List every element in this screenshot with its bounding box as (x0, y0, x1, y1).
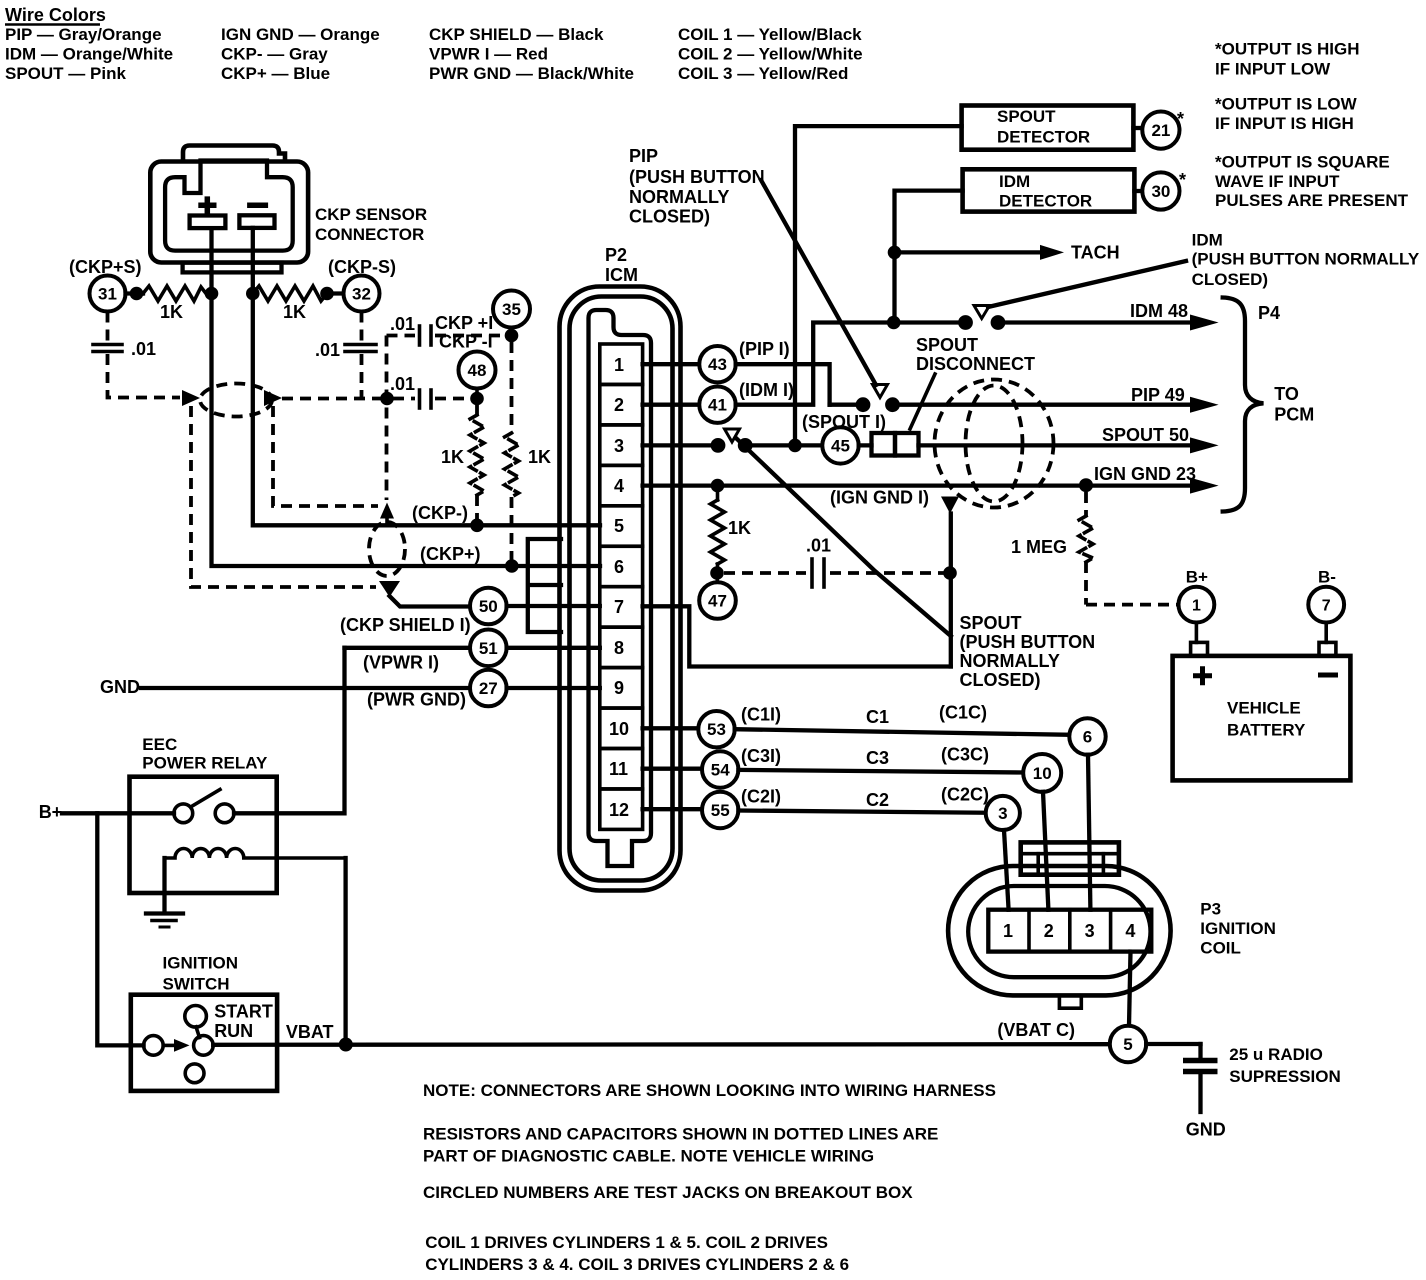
ICM pin 1 box (600, 344, 643, 384)
wire IDM 48 to PCM (998, 320, 1192, 324)
svg-text:47: 47 (708, 592, 727, 611)
svg-text:TACH: TACH (1071, 243, 1120, 263)
svg-text:(IDM I): (IDM I) (739, 380, 794, 400)
svg-text:12: 12 (609, 800, 629, 820)
node dot VBAT (339, 1038, 353, 1052)
ICM pin 11 box (600, 749, 643, 789)
wire dashed 31-cap to shield node (108, 354, 181, 398)
CKP sensor connector terminal + (190, 216, 226, 229)
wire SPOUT 50 to PCM (919, 443, 1193, 447)
wire pin 12 to jack 55 (643, 807, 702, 811)
capacitor .01 (CKP+I) (418, 326, 422, 345)
leader diagonal PIP pushbutton (761, 180, 876, 385)
node dot on CKP- wire at 1K (470, 519, 484, 533)
wire SPOUT detector to SPOUT line (795, 126, 962, 445)
leader diagonal IDM pushbutton (988, 261, 1186, 307)
CKP sensor connector cavity with keyway (165, 161, 293, 251)
pushbutton PIP open triangle (873, 385, 888, 398)
svg-text:(VBAT C): (VBAT C) (997, 1020, 1075, 1040)
svg-text:IF INPUT LOW: IF INPUT LOW (1215, 60, 1331, 79)
wire C3 jack 54 to jack 10 (738, 770, 1023, 773)
svg-text:41: 41 (708, 396, 727, 415)
capacitor .01 dashed (SPOUT branch) (724, 571, 806, 575)
test jack 47 (699, 582, 736, 619)
ignition switch arrow (163, 1044, 174, 1048)
svg-text:5: 5 (614, 516, 624, 536)
svg-text:IDM 48: IDM 48 (1130, 301, 1188, 321)
wire TACH (895, 250, 1042, 254)
svg-text:(C1C): (C1C) (939, 703, 987, 723)
ICM pin 3 box (600, 425, 643, 465)
svg-text:3: 3 (998, 804, 1007, 823)
wire pin 10 to jack 53 (643, 726, 699, 730)
cable shield oval (PCM lines) inner (966, 386, 1023, 502)
svg-text:10: 10 (1033, 764, 1052, 783)
svg-text:TO: TO (1274, 384, 1299, 404)
svg-text:P3: P3 (1200, 900, 1221, 919)
svg-text:C1: C1 (866, 707, 889, 727)
svg-text:21: 21 (1151, 121, 1170, 140)
cable shield oval (PCM lines) outer (935, 380, 1054, 508)
wire pin 4 IGN GND to PCM (643, 483, 1192, 487)
CKP sensor connector outer shell (150, 162, 308, 263)
svg-text:*: * (1179, 170, 1186, 190)
node dot SPOUT detector junction (788, 439, 802, 453)
relay contact A (174, 804, 193, 823)
capacitor .01 (jack 32 branch) (345, 343, 376, 347)
svg-text:.01: .01 (131, 339, 156, 359)
wire pin 2 to jack 41 (643, 403, 700, 407)
svg-text:.01: .01 (315, 340, 340, 360)
node dot at jack32 resistor (320, 287, 334, 301)
svg-text:PWR GND — Black/White: PWR GND — Black/White (429, 64, 634, 83)
svg-text:B-: B- (1318, 567, 1336, 586)
svg-text:53: 53 (707, 720, 726, 739)
svg-text:VPWR I — Red: VPWR I — Red (429, 45, 548, 64)
ICM pin 8 box (600, 627, 643, 667)
wire jack 50 to pin 7 (507, 604, 600, 608)
wire IDM detector to jack 30 (1134, 189, 1142, 193)
ignition switch box (131, 995, 277, 1091)
wire VPWR from relay to jack 51 (345, 646, 471, 650)
stem jack 48 (475, 387, 479, 396)
wire dashed shield drop left (191, 406, 376, 587)
svg-text:1K: 1K (441, 447, 464, 467)
svg-text:IGN GND — Orange: IGN GND — Orange (221, 25, 380, 44)
resistor 1K dashed (48 branch) (475, 405, 479, 415)
svg-text:(PUSH BUTTON: (PUSH BUTTON (960, 632, 1096, 652)
test jack 50 (470, 588, 507, 625)
battery minus mark (1318, 673, 1338, 678)
svg-text:WAVE IF INPUT: WAVE IF INPUT (1215, 172, 1340, 191)
wire SPOUT pushbutton diagonal (736, 438, 951, 636)
node dot on IGN GND at 1K (711, 479, 725, 493)
svg-text:GND: GND (100, 677, 140, 697)
wire dashed from jack 31 down (106, 312, 110, 343)
wire relay contact to VPWR riser (234, 648, 345, 814)
battery terminal stems (1195, 623, 1199, 643)
ground symbol (146, 911, 183, 915)
svg-text:32: 32 (352, 285, 371, 304)
ignition switch wiper (196, 1027, 200, 1038)
ICM connector inner cavity (589, 310, 652, 866)
wire jack 5 to radio suppression cap (1146, 1042, 1200, 1046)
ignition switch left contact (144, 1036, 164, 1056)
svg-text:COIL 1 — Yellow/Black: COIL 1 — Yellow/Black (678, 25, 862, 44)
wire pin 7 right to spout net (643, 606, 951, 666)
svg-text:9: 9 (614, 678, 624, 698)
svg-text:1 MEG: 1 MEG (1011, 537, 1067, 557)
wire coil to ground (162, 858, 166, 911)
node dot TACH junction (888, 246, 902, 260)
wire jack 10 to coil pin 2 (1043, 792, 1048, 910)
test jack 5 (1110, 1026, 1146, 1062)
svg-text:1K: 1K (283, 302, 306, 322)
svg-text:C2: C2 (866, 790, 889, 810)
svg-text:CKP- — Gray: CKP- — Gray (221, 45, 328, 64)
P3 ignition coil inner oval (968, 886, 1150, 977)
test jack 55 (702, 792, 738, 828)
svg-text:START: START (214, 1002, 273, 1022)
P3 coil bottom tab (1059, 995, 1081, 1008)
svg-text:SPOUT: SPOUT (997, 107, 1056, 126)
svg-text:VEHICLE: VEHICLE (1227, 699, 1301, 718)
ICM pin 7 box (600, 587, 643, 627)
svg-text:4: 4 (1125, 921, 1135, 941)
CKP sensor connector plus sign (198, 196, 216, 214)
svg-text:(C2I): (C2I) (741, 786, 781, 806)
svg-text:CYLINDERS 3 & 4. COIL 3 DRIVES: CYLINDERS 3 & 4. COIL 3 DRIVES CYLINDERS… (425, 1255, 849, 1274)
svg-text:B+: B+ (39, 802, 63, 822)
node dot dashed cap to spout leader (943, 566, 957, 580)
svg-text:DISCONNECT: DISCONNECT (916, 354, 1035, 374)
svg-text:*OUTPUT IS HIGH: *OUTPUT IS HIGH (1215, 40, 1360, 59)
svg-text:PART OF DIAGNOSTIC CABLE. NOTE: PART OF DIAGNOSTIC CABLE. NOTE VEHICLE W… (423, 1146, 874, 1165)
ICM pin 12 box (600, 789, 643, 829)
svg-text:54: 54 (711, 761, 730, 780)
wire jack 3 to coil pin 1 (1004, 830, 1009, 910)
stem jack 47 (715, 575, 719, 583)
svg-text:50: 50 (479, 597, 498, 616)
svg-text:(VPWR I): (VPWR I) (363, 653, 439, 673)
svg-text:IDM: IDM (1192, 231, 1223, 250)
wire IDM jack 41 jog up (736, 323, 963, 405)
svg-text:B+: B+ (1186, 567, 1208, 586)
node dot IGN GND at 1 MEG (1079, 478, 1093, 492)
svg-text:4: 4 (614, 476, 624, 496)
CKP sensor connector terminal - (239, 215, 274, 228)
stem jack 35 (510, 326, 514, 334)
svg-text:IF INPUT IS HIGH: IF INPUT IS HIGH (1215, 114, 1354, 133)
svg-text:SPOUT 50: SPOUT 50 (1102, 425, 1189, 445)
wire dashed shield drop mid (273, 406, 378, 506)
leader disconnect label (910, 374, 935, 429)
ICM pin 2 box (600, 384, 643, 424)
shield arrow onto CKP SHIELD wire (379, 581, 400, 597)
test jack 45 (822, 427, 858, 463)
resistor 1 MEG dashed (1084, 492, 1088, 516)
svg-text:CONNECTOR: CONNECTOR (315, 225, 424, 244)
ICM pin 9 box (600, 668, 643, 708)
svg-text:8: 8 (614, 638, 624, 658)
svg-text:45: 45 (831, 436, 850, 455)
svg-text:NOTE: CONNECTORS ARE SHOWN LOO: NOTE: CONNECTORS ARE SHOWN LOOKING INTO … (423, 1081, 996, 1100)
node dot at jack31 resistor (130, 287, 144, 301)
cable shield oval (vertical, CKP pair at ICM) (369, 522, 405, 576)
shield arrow right of cable oval (264, 390, 282, 406)
capacitor 25u radio suppression (1198, 1044, 1202, 1058)
svg-text:(C3I): (C3I) (741, 746, 781, 766)
wire jack 51 to pin 8 (507, 646, 600, 650)
wire dashed oval to CKP-I node (282, 397, 383, 401)
svg-text:51: 51 (479, 639, 498, 658)
svg-text:(PUSH BUTTON: (PUSH BUTTON (629, 167, 765, 187)
svg-text:.01: .01 (390, 374, 415, 394)
svg-text:COIL 1 DRIVES CYLINDERS 1 & 5.: COIL 1 DRIVES CYLINDERS 1 & 5. COIL 2 DR… (425, 1233, 828, 1252)
node dot CKP-I junction (380, 392, 394, 406)
test jack 30 (1142, 172, 1179, 209)
wire C1 jack 53 to jack 6 (735, 729, 1070, 735)
P3 coil top cap (1021, 842, 1119, 874)
svg-text:CIRCLED NUMBERS ARE TEST JACKS: CIRCLED NUMBERS ARE TEST JACKS ON BREAKO… (423, 1183, 913, 1202)
svg-text:48: 48 (468, 361, 487, 380)
relay contact B (215, 804, 234, 823)
svg-text:PIP: PIP (629, 146, 658, 166)
wire SPOUT to jack 45 (745, 443, 822, 447)
wire coil pin 4 to jack 5 (1129, 952, 1131, 1027)
svg-text:(CKP+): (CKP+) (420, 544, 481, 564)
svg-text:CKP SHIELD — Black: CKP SHIELD — Black (429, 25, 604, 44)
P3 coil pin row (988, 910, 1151, 952)
vehicle battery box (1173, 656, 1351, 781)
svg-text:PIP 49: PIP 49 (1131, 385, 1185, 405)
wire B+ down to ignition switch (97, 813, 143, 1045)
test jack 41 (699, 387, 735, 423)
svg-text:NORMALLY: NORMALLY (629, 187, 729, 207)
svg-text:BATTERY: BATTERY (1227, 720, 1306, 739)
svg-text:(PIP I): (PIP I) (739, 339, 790, 359)
wire B+ to relay contact (62, 811, 174, 815)
ICM pin 6 box (600, 546, 643, 586)
shield arrow left of cable oval (182, 390, 200, 406)
node dot under jack 35 (505, 329, 519, 343)
battery plus mark (1193, 666, 1212, 685)
svg-text:(CKP-): (CKP-) (412, 503, 468, 523)
svg-text:SPOUT: SPOUT (916, 335, 978, 355)
test jack 54 (702, 751, 738, 787)
wire C2 jack 55 to jack 3 (738, 811, 985, 813)
svg-text:(C2C): (C2C) (941, 785, 989, 805)
wire dashed from jack 32 down (360, 312, 364, 343)
svg-text:CKP SENSOR: CKP SENSOR (315, 205, 427, 224)
SPOUT disconnect plugs (872, 433, 896, 456)
wire dashed 32-cap to shield line (360, 354, 364, 398)
test jack 27 (470, 670, 507, 707)
svg-text:VBAT: VBAT (286, 1022, 334, 1042)
svg-text:DETECTOR: DETECTOR (999, 192, 1092, 211)
test jack 10 (1023, 754, 1061, 792)
svg-text:P4: P4 (1258, 303, 1280, 323)
SPOUT detector box (962, 106, 1134, 150)
resistor 1K dashed (35 branch) (510, 342, 514, 433)
svg-text:CKP -I: CKP -I (439, 332, 493, 352)
svg-text:IDM — Orange/White: IDM — Orange/White (5, 45, 173, 64)
test jack 32 (344, 276, 380, 312)
wire SPOUT detector to jack 21 (1133, 126, 1142, 130)
wire pin 1 to jack 43 (643, 362, 700, 366)
svg-text:COIL 2 — Yellow/White: COIL 2 — Yellow/White (678, 45, 863, 64)
svg-text:*OUTPUT IS SQUARE: *OUTPUT IS SQUARE (1215, 153, 1390, 172)
resistor 1K (CKP+S) (143, 286, 206, 301)
ICM pin 10 box (600, 708, 643, 748)
svg-text:NORMALLY: NORMALLY (960, 651, 1060, 671)
wire dashed CKP+I line (387, 334, 416, 338)
svg-text:2: 2 (614, 395, 624, 415)
svg-text:2: 2 (1044, 921, 1054, 941)
ignition switch center contact (194, 1036, 214, 1056)
svg-text:SPOUT — Pink: SPOUT — Pink (5, 64, 126, 83)
svg-text:EEC: EEC (142, 735, 177, 754)
CKP sensor connector minus sign (247, 202, 268, 208)
svg-text:(PUSH BUTTON NORMALLY: (PUSH BUTTON NORMALLY (1192, 250, 1420, 269)
ignition switch START contact (185, 1006, 207, 1028)
wire PIP line with pushbutton (830, 403, 864, 407)
CKP sensor connector bottom tab (183, 263, 282, 273)
svg-text:55: 55 (711, 801, 730, 820)
svg-text:GND: GND (1186, 1120, 1226, 1140)
svg-text:.01: .01 (390, 314, 415, 334)
wire jack31 to resistor (126, 291, 144, 295)
svg-text:6: 6 (614, 557, 624, 577)
node dot on CKP+ wire at 1K (505, 559, 519, 573)
wire PIP jack 43 jog (736, 364, 830, 405)
svg-text:CKP+ — Blue: CKP+ — Blue (221, 64, 330, 83)
ICM pin 5 box (600, 506, 643, 546)
svg-text:30: 30 (1151, 182, 1170, 201)
svg-text:IGNITION: IGNITION (1200, 919, 1276, 938)
svg-text:COIL 3 — Yellow/Red: COIL 3 — Yellow/Red (678, 64, 848, 83)
test jack 7 (battery B-) (1308, 587, 1344, 623)
svg-text:*OUTPUT IS LOW: *OUTPUT IS LOW (1215, 95, 1358, 114)
svg-text:RUN: RUN (214, 1021, 253, 1041)
svg-text:6: 6 (1083, 728, 1092, 747)
ICM pin 4 box (600, 465, 643, 505)
svg-text:31: 31 (98, 285, 117, 304)
svg-text:(C1I): (C1I) (741, 704, 781, 724)
IDM detector box (963, 169, 1135, 211)
svg-text:10: 10 (609, 719, 629, 739)
wire pin 3 SPOUT line (643, 443, 718, 447)
svg-text:SUPRESSION: SUPRESSION (1229, 1067, 1340, 1086)
svg-text:COIL: COIL (1200, 938, 1241, 957)
shield arrow onto CKP- wire (380, 503, 394, 519)
svg-text:1: 1 (1192, 598, 1201, 615)
pushbutton IDM open triangle (974, 306, 990, 319)
svg-text:43: 43 (708, 355, 727, 374)
svg-text:SWITCH: SWITCH (163, 975, 230, 994)
svg-text:ICM: ICM (605, 265, 638, 285)
P3 ignition coil outer oval (948, 866, 1171, 995)
resistor 1K (pin4 branch) (716, 492, 720, 500)
svg-text:(CKP SHIELD I): (CKP SHIELD I) (340, 615, 471, 635)
svg-text:1: 1 (614, 355, 624, 375)
svg-text:Wire Colors: Wire Colors (5, 5, 106, 25)
node dot IDM detector junction (887, 316, 901, 330)
svg-text:.01: .01 (806, 536, 831, 556)
svg-text:3: 3 (614, 436, 624, 456)
svg-text:SPOUT: SPOUT (960, 613, 1022, 633)
svg-text:3: 3 (1085, 921, 1095, 941)
wire CKP+ from connector to pin 6 (212, 228, 601, 566)
node dot at jack 47 (710, 566, 724, 580)
test jack 53 (698, 711, 734, 747)
svg-text:IGNITION: IGNITION (163, 954, 239, 973)
wire dashed CKP-I line (393, 397, 415, 401)
svg-text:1: 1 (1003, 921, 1013, 941)
pushbutton SPOUT contact dots (711, 438, 726, 453)
wire PIP 49 to PCM (893, 403, 1193, 407)
cable shield oval (CKP pair) (200, 384, 272, 417)
wire relay coil to VBAT riser (343, 858, 347, 1038)
ignition switch bottom contact (185, 1064, 204, 1083)
svg-text:(C3C): (C3C) (941, 744, 989, 764)
ICM connector middle shell (570, 297, 673, 881)
svg-text:(IGN GND I): (IGN GND I) (830, 488, 929, 508)
test jack 3 (986, 796, 1020, 830)
wire CKP- from connector to pin 5 (253, 228, 600, 525)
svg-text:7: 7 (614, 597, 624, 617)
svg-text:1K: 1K (160, 302, 183, 322)
node dot on CKP+ wire (205, 287, 219, 301)
test jack 35 (493, 291, 530, 328)
wire jack 27 to pin 9 (507, 686, 600, 690)
shield tab bracket at pins 6-7 (528, 539, 561, 632)
wire VBAT (213, 1042, 1110, 1047)
CKP sensor connector top tab (183, 146, 285, 162)
test jack 31 (90, 276, 126, 312)
capacitor .01 (jack 31 branch) (93, 343, 122, 347)
EEC power relay box (130, 777, 277, 893)
wire pin 11 to jack 54 (643, 767, 702, 771)
svg-text:5: 5 (1123, 1035, 1132, 1054)
spout net arrow at IGN GND (941, 497, 959, 514)
svg-text:RESISTORS AND CAPACITORS SHOWN: RESISTORS AND CAPACITORS SHOWN IN DOTTED… (423, 1125, 938, 1144)
svg-text:27: 27 (479, 679, 498, 698)
wire dashed vertical CKP+I/CKP-I trunk (385, 336, 389, 501)
wire shield elbow to jack 50 (390, 596, 471, 607)
test jack 48 (459, 352, 496, 389)
svg-text:25 u RADIO: 25 u RADIO (1229, 1045, 1323, 1064)
svg-text:1K: 1K (528, 447, 551, 467)
pushbutton IDM contact dots (958, 315, 973, 330)
svg-text:IGN GND 23: IGN GND 23 (1094, 464, 1196, 484)
svg-text:1K: 1K (728, 518, 751, 538)
svg-text:7: 7 (1322, 598, 1331, 615)
svg-text:P2: P2 (605, 245, 627, 265)
svg-text:11: 11 (609, 759, 628, 779)
ICM connector outer shell (560, 287, 681, 891)
svg-text:CLOSED): CLOSED) (629, 207, 710, 227)
svg-text:C3: C3 (866, 748, 889, 768)
battery terminal posts (1191, 642, 1208, 656)
relay lever (191, 790, 221, 808)
svg-text:PIP — Gray/Orange: PIP — Gray/Orange (5, 25, 162, 44)
brace P4 to PCM (1223, 298, 1264, 512)
svg-text:DETECTOR: DETECTOR (997, 128, 1090, 147)
svg-text:35: 35 (502, 300, 521, 319)
svg-text:IDM: IDM (999, 172, 1030, 191)
svg-text:*: * (1177, 109, 1184, 129)
